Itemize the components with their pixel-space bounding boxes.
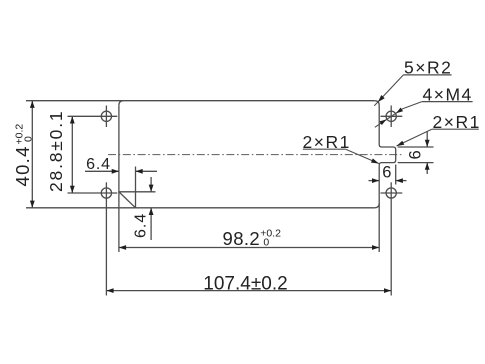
hole bottom-right M4 bbox=[386, 188, 396, 198]
dimension 40.4+0.2/0 label bbox=[12, 124, 35, 187]
dimension 40.4+0.2/0 line bbox=[31, 101, 33, 208]
corner arc top-left R2 bbox=[119, 101, 124, 106]
dimension 28.8±0.1 label bbox=[46, 110, 66, 192]
extension line for 6 vertical (tab bottom edge rightward) bbox=[398, 162, 434, 164]
corner arc bottom-right R2 bbox=[375, 203, 380, 208]
extension line for 6.4 vertical (from chamfer top point right) bbox=[119, 191, 156, 193]
crosshair horizontal, top-right hole bbox=[381, 115, 403, 117]
hole bottom-left M4 bbox=[101, 188, 111, 198]
wire bottom edge of cutout (with left extension line for 40.4) bbox=[26, 207, 375, 209]
dimension 6 horizontal line left piece bbox=[369, 180, 380, 182]
centerline (horizontal dash-dot axis) bbox=[108, 154, 403, 156]
dimension 6.4 horizontal line left piece bbox=[85, 170, 119, 172]
crosshair horizontal, bottom-right hole bbox=[381, 192, 403, 194]
tab outline on right side (6x6 tab with R1 corners) bbox=[379, 145, 396, 166]
leader 2×R1 left to tab bottom-left corner bbox=[346, 149, 379, 163]
svg-text:6: 6 bbox=[382, 163, 391, 181]
wire left edge of cutout (extends down as 98.2 extension line) bbox=[118, 105, 120, 252]
svg-text:6.4: 6.4 bbox=[133, 213, 150, 238]
dimension 6 vertical label bbox=[407, 150, 425, 159]
svg-text:0: 0 bbox=[23, 136, 35, 142]
hole top-left M4 bbox=[101, 111, 111, 121]
dimension 28.8±0.1 line bbox=[71, 116, 73, 193]
wire right edge of cutout, lower part (extends down as 98.2 extension line) bbox=[378, 165, 380, 252]
svg-text:6: 6 bbox=[407, 150, 425, 159]
leader 5×R2 to top-right corner (with overshoot) bbox=[374, 75, 403, 106]
svg-text:28.8±0.1: 28.8±0.1 bbox=[46, 110, 66, 192]
dimension 6.4 vertical label bbox=[133, 213, 150, 238]
svg-text:6.4: 6.4 bbox=[86, 156, 111, 173]
crosshair vertical, top-right hole bbox=[390, 106, 392, 128]
crosshair + 28.8 extension line, top-left hole bbox=[68, 115, 118, 117]
svg-text:107.4±0.2: 107.4±0.2 bbox=[203, 273, 287, 294]
extension line for 6 vertical (tab top edge rightward) bbox=[398, 146, 434, 148]
corner arc top-right R2 bbox=[375, 101, 380, 106]
crosshair + 28.8 extension line, bottom-left hole bbox=[68, 192, 118, 194]
dimension 107.4±0.2 line bbox=[106, 290, 391, 292]
leader 2×R1 right to tab top-right corner bbox=[397, 129, 432, 146]
extension line for 6.4 horizontal (from chamfer bottom point up) bbox=[135, 167, 137, 208]
hole top-right M4 bbox=[386, 111, 396, 121]
chamfer line bottom-left 6.4 x 6.4 bbox=[119, 192, 136, 208]
dimension 6.4 vertical line bottom piece bbox=[150, 208, 152, 240]
wire top edge of cutout (with left extension line for 40.4) bbox=[26, 100, 375, 102]
crosshair vertical + 107.4 extension line, bottom-right hole bbox=[390, 182, 392, 295]
dimension 98.2+0.2/0 line bbox=[119, 247, 379, 249]
dimension 6 vertical line bottom piece bbox=[426, 163, 428, 174]
wire right edge of cutout, upper part bbox=[378, 105, 380, 144]
dimension 6.4 vertical line top piece bbox=[150, 177, 152, 192]
dimension 6 vertical line top piece bbox=[426, 132, 428, 148]
svg-text:98.2: 98.2 bbox=[223, 228, 261, 249]
dimension 6 horizontal line right piece bbox=[396, 180, 407, 182]
dimension 6.4 horizontal line right piece bbox=[136, 170, 158, 172]
crosshair vertical + 107.4 extension line, bottom-left hole bbox=[105, 182, 107, 295]
svg-text:40.4: 40.4 bbox=[12, 145, 33, 186]
crosshair vertical, top-left hole bbox=[105, 106, 107, 128]
extension line for 6 horizontal (tab right edge downward) bbox=[395, 165, 397, 185]
svg-text:0: 0 bbox=[263, 237, 269, 249]
leader 4×M4 diagonal through top-right hole with inward arrows bbox=[403, 102, 422, 109]
